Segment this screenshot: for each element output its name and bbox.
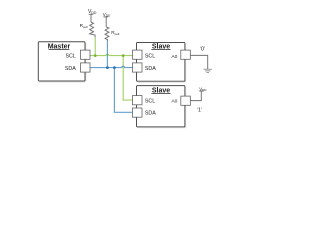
svg-text:A0: A0: [171, 99, 177, 105]
svg-text:SCL: SCL: [145, 54, 155, 60]
svg-text:VDD: VDD: [103, 12, 111, 18]
svg-text:VDD: VDD: [88, 9, 97, 15]
svg-text:‘1’: ‘1’: [197, 108, 202, 114]
pin box slave1 SDA: [133, 63, 143, 72]
ground: [204, 69, 212, 72]
pin box slave1 SCL: [133, 50, 143, 59]
wire SDA net (blue horizontal master to slave1, hop over green): [90, 66, 133, 67]
power VDD1 symbol: [89, 14, 94, 22]
pin box slave2 SCL: [133, 96, 143, 105]
Slave box 1: [137, 43, 185, 82]
pin box master SDA: [81, 63, 91, 72]
wire SCL net (green horizontal master to slave1): [90, 54, 133, 55]
node junction dot green (Rpull1 to SCL): [94, 54, 97, 57]
power VDD3 symbol: [199, 90, 204, 92]
svg-text:SDA: SDA: [65, 66, 76, 72]
node junction dot blue (SDA branch): [113, 66, 116, 69]
wire SDA resistor lead (blue): [106, 41, 108, 67]
pin box master SCL: [81, 50, 91, 59]
power VDD2 symbol: [103, 17, 108, 27]
wire SDA branch vertical to slave2: [114, 68, 132, 113]
node junction dot blue (Rpull2 to SDA): [106, 66, 109, 69]
pin box slave2 A0: [181, 96, 191, 105]
Master box: [38, 42, 85, 81]
wire A0-2 to VDD: [190, 91, 201, 101]
wire A0-1 to ground: [190, 55, 207, 69]
svg-text:SCL: SCL: [65, 54, 75, 60]
wire SCL resistor lead (green): [94, 37, 96, 55]
node junction dot green (SCL branch): [122, 54, 125, 57]
svg-text:SDA: SDA: [145, 66, 156, 72]
svg-text:Rpull: Rpull: [80, 23, 88, 29]
svg-text:SDA: SDA: [145, 111, 156, 117]
resistor Rpull2: [105, 27, 109, 41]
svg-text:Rpull: Rpull: [111, 30, 119, 36]
wire SCL branch vertical to slave2: [123, 56, 132, 101]
pin box slave2 SDA: [133, 108, 143, 117]
svg-text:SCL: SCL: [145, 98, 155, 104]
Slave box 2: [137, 86, 185, 127]
resistor Rpull1: [90, 22, 96, 37]
svg-text:VDD: VDD: [199, 86, 207, 92]
svg-text:A0: A0: [171, 54, 177, 60]
pin box slave1 A0: [181, 50, 191, 59]
svg-text:‘0’: ‘0’: [200, 47, 205, 53]
